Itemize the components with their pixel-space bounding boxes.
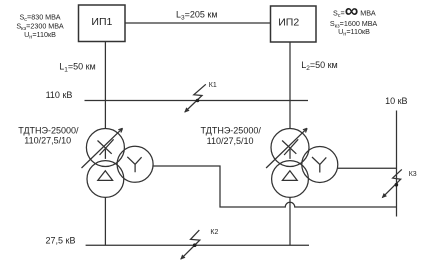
svg-text:К3: К3 bbox=[409, 171, 417, 178]
svg-text:L1=50 км: L1=50 км bbox=[59, 61, 96, 73]
svg-text:ТДТНЭ-25000/: ТДТНЭ-25000/ bbox=[18, 126, 79, 136]
svg-text:27,5 кВ: 27,5 кВ bbox=[46, 235, 76, 245]
svg-text:110 кВ: 110 кВ bbox=[46, 90, 73, 100]
svg-text:110/27,5/10: 110/27,5/10 bbox=[207, 136, 254, 146]
svg-text:ИП1: ИП1 bbox=[91, 16, 112, 28]
svg-text:ТДТНЭ-25000/: ТДТНЭ-25000/ bbox=[201, 125, 262, 135]
svg-text:110/27,5/10: 110/27,5/10 bbox=[24, 135, 71, 145]
svg-text:L3=205 км: L3=205 км bbox=[176, 9, 218, 21]
svg-text:10 кВ: 10 кВ bbox=[385, 96, 407, 106]
svg-text:Uн=110кВ: Uн=110кВ bbox=[24, 30, 56, 41]
svg-text:L2=50 км: L2=50 км bbox=[301, 60, 338, 72]
svg-text:Uн=110кВ: Uн=110кВ bbox=[338, 27, 370, 38]
svg-text:ИП2: ИП2 bbox=[278, 16, 299, 28]
svg-text:К1: К1 bbox=[209, 82, 217, 89]
svg-text:К2: К2 bbox=[210, 229, 218, 236]
